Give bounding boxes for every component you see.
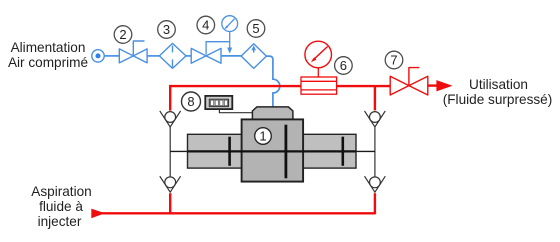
svg-text:1: 1 — [259, 129, 266, 144]
valve V2 shutoff — [119, 41, 147, 63]
pipe right chamber vertical line — [374, 127, 376, 177]
label Alimentation Air comprimé — [8, 40, 88, 70]
svg-text:fluide à: fluide à — [39, 199, 83, 214]
filter F3 — [159, 43, 186, 68]
valve V7 outlet — [390, 68, 428, 95]
check valve CV top-right — [365, 111, 386, 127]
ref circle 2 — [114, 26, 132, 44]
check valve CV bottom-left — [160, 176, 181, 192]
wire lubricator 5 down to pump air inlet with hop over red line — [266, 56, 279, 107]
booster outlet block B6 — [301, 77, 337, 94]
pipe discharge top red line left segment — [170, 86, 301, 111]
svg-text:Air comprimé: Air comprimé — [8, 55, 88, 70]
svg-text:5: 5 — [252, 21, 259, 36]
ref circle 8 — [182, 92, 201, 111]
air source inlet port — [92, 50, 104, 62]
pump P1 top cap — [252, 107, 293, 119]
pipe suction branch up right check valve — [374, 193, 376, 214]
gauge G6 stem — [317, 68, 319, 77]
suction arrow aspiration — [91, 209, 105, 219]
ref circle 5 — [247, 20, 265, 38]
arrow to utilisation — [436, 80, 452, 91]
svg-text:6: 6 — [340, 58, 347, 73]
pipe discharge red line muffler to valve 7 — [336, 85, 390, 87]
wire filter 3 to regulator 4 — [186, 55, 191, 57]
pipe suction bottom red line — [101, 212, 375, 214]
svg-text:2: 2 — [119, 27, 126, 42]
piston rod line through pump — [170, 150, 375, 152]
pipe left chamber vertical line — [169, 127, 171, 177]
piston center — [284, 125, 287, 179]
svg-text:7: 7 — [390, 53, 397, 68]
lubricator L5 — [241, 44, 266, 69]
svg-text:Alimentation: Alimentation — [11, 40, 86, 55]
label Aspiration fluide à injecter — [31, 184, 91, 229]
regulator 4 pilot line — [206, 42, 230, 55]
ref circle 4 — [197, 16, 215, 34]
pressure gauge G4 — [222, 16, 238, 32]
pump P1 right cylinder — [302, 134, 356, 168]
pump P1 central body — [242, 119, 304, 181]
svg-text:Aspiration: Aspiration — [31, 184, 91, 199]
ref circle 1 — [255, 128, 272, 145]
wire air line inlet to valve 2 — [104, 55, 119, 57]
ref circle 3 — [158, 21, 176, 39]
ref circle 6 — [335, 57, 353, 75]
wire regulator 4 to lubricator 5 — [221, 55, 241, 57]
pressure regulator V4 — [191, 48, 221, 63]
svg-text:4: 4 — [202, 18, 209, 33]
svg-text:(Fluide surpressé): (Fluide surpressé) — [443, 92, 553, 107]
check valve CV bottom-right — [365, 176, 386, 192]
wire counter 8 to pump cap — [219, 109, 252, 112]
pipe suction branch up left check valve — [169, 193, 171, 213]
pipe valve 7 to utilisation arrow — [428, 84, 439, 86]
svg-text:injecter: injecter — [38, 214, 82, 229]
pipe branch down to right top check valve — [374, 86, 376, 110]
piston left — [228, 137, 231, 166]
svg-text:Utilisation: Utilisation — [469, 77, 528, 92]
check valve CV top-left — [160, 111, 181, 127]
svg-text:3: 3 — [163, 22, 170, 37]
ref circle 7 — [385, 51, 403, 69]
wire valve 2 to filter 3 — [147, 55, 159, 57]
svg-text:8: 8 — [187, 94, 194, 109]
label Utilisation (Fluide surpressé) — [443, 77, 553, 107]
pressure gauge G6 — [305, 41, 332, 68]
regulator 4 downstream stem — [229, 32, 231, 49]
piston rod inner segment — [188, 150, 357, 152]
stroke counter C8 — [205, 96, 232, 109]
regulator 4 arrow into line — [227, 48, 232, 54]
piston right — [341, 137, 344, 166]
pump P1 left cylinder — [188, 134, 242, 168]
